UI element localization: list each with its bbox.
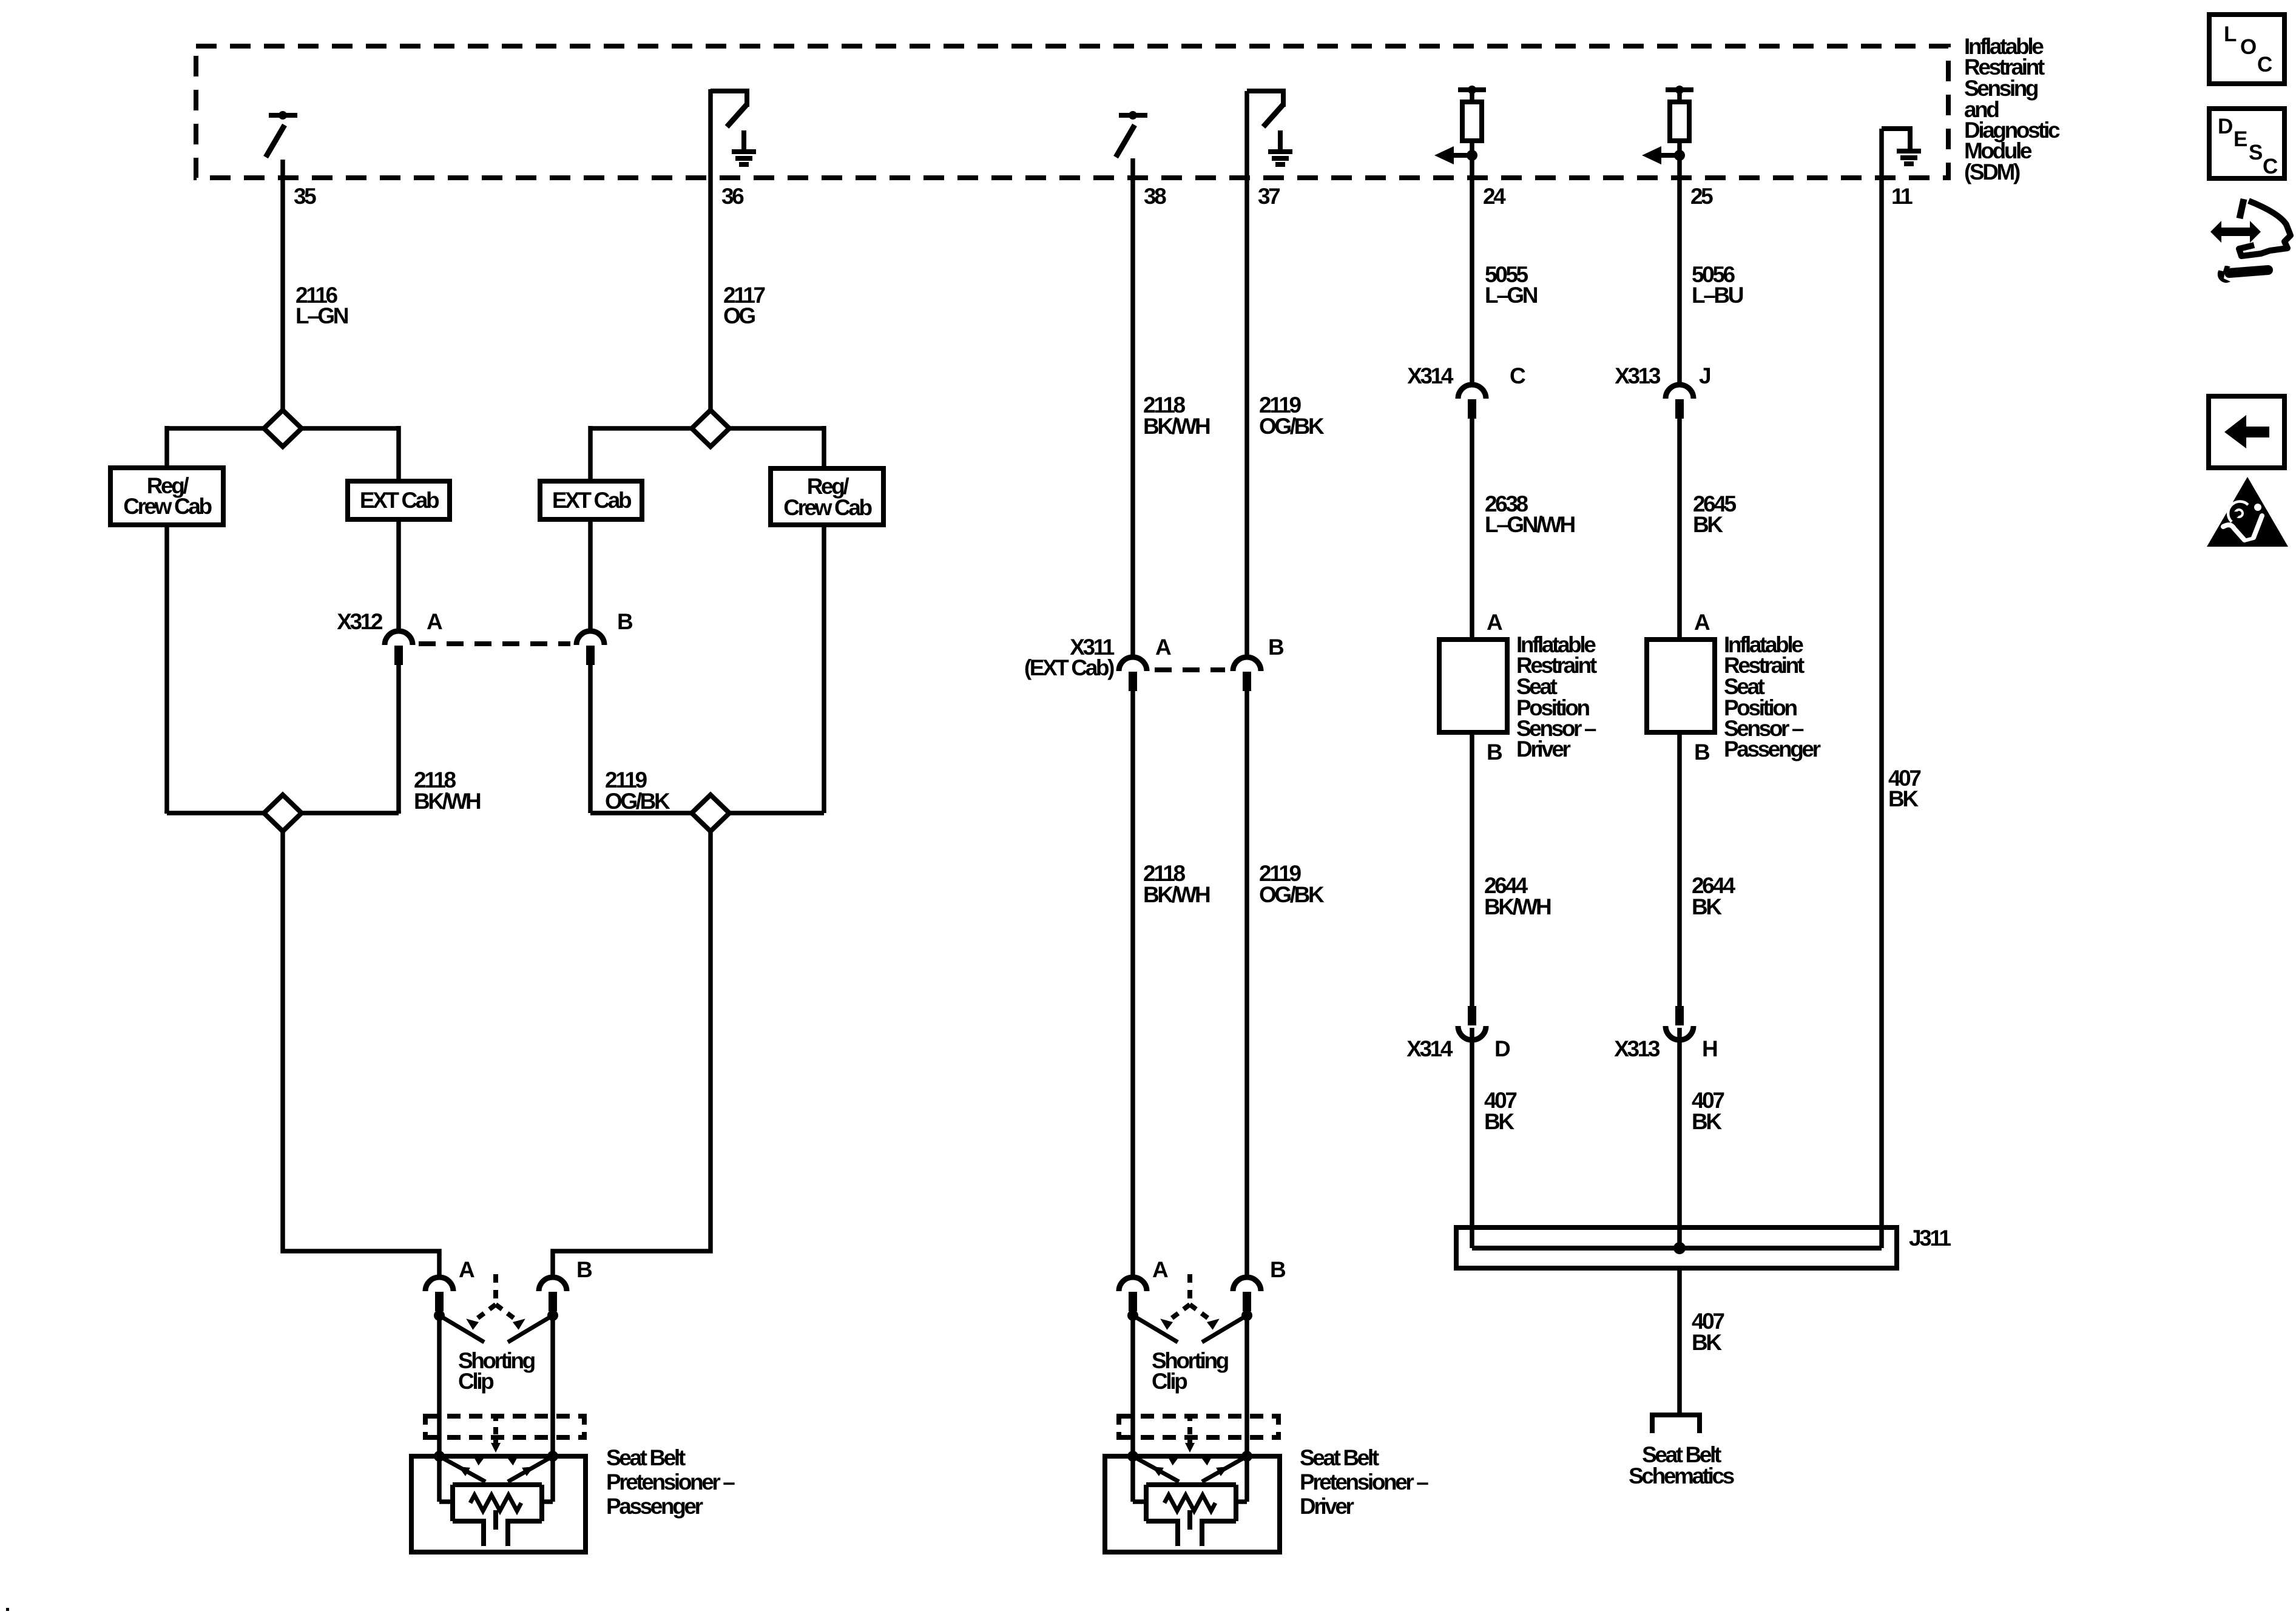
squib resistor zigzag in passenger box	[470, 1495, 521, 1511]
svg-text:BK: BK	[1692, 894, 1722, 919]
wire A down inside passenger box	[439, 1456, 454, 1502]
svg-text:O: O	[2240, 35, 2256, 59]
pin number 38	[1144, 184, 1166, 209]
junction dot B (passenger)	[547, 1310, 558, 1321]
connector terminal B of shorting clip (passenger)	[539, 1277, 567, 1311]
wire pin 35 to splice diamond	[280, 160, 285, 410]
ground switch inside SDM at pin 36	[711, 91, 756, 164]
wire B pin to pretensioner (passenger)	[550, 1311, 555, 1459]
wire EXT Cab left to X312 A	[396, 519, 401, 631]
svg-text:BK/WH: BK/WH	[1143, 882, 1210, 907]
blade from B in passenger box	[508, 1456, 553, 1482]
connector terminal A of shorting clip (passenger)	[425, 1277, 453, 1311]
wire label 2118 BK/WH upper	[1143, 393, 1210, 439]
wire pin 36 to splice diamond	[708, 89, 713, 410]
off-page connector bracket	[1652, 1415, 1700, 1433]
svg-text:Crew Cab: Crew Cab	[783, 495, 872, 520]
back arrow icon box	[2209, 396, 2284, 468]
wire A pin to pretensioner (driver)	[1130, 1311, 1135, 1459]
svg-text:OG: OG	[723, 303, 755, 328]
label pin A passenger sensor	[1694, 610, 1710, 635]
svg-text:X314: X314	[1406, 1036, 1453, 1061]
svg-text:38: 38	[1144, 184, 1166, 209]
svg-text:J: J	[1699, 363, 1710, 388]
svg-text:25: 25	[1690, 184, 1713, 209]
svg-text:Seat Belt: Seat Belt	[606, 1445, 686, 1470]
Reg/Crew Cab box right	[771, 468, 883, 525]
svg-text:35: 35	[294, 184, 316, 209]
wire EXT Cab right to X312 B	[588, 519, 593, 631]
LOC icon box	[2209, 15, 2284, 84]
connector X312 terminal B	[576, 631, 604, 665]
label X314 pin D	[1494, 1036, 1510, 1061]
splice diamond top right circuit	[692, 410, 729, 447]
wire B pin to pretensioner (driver)	[1244, 1311, 1249, 1459]
wire X313 H to J311	[1677, 1028, 1682, 1248]
blade from B in driver box	[1202, 1456, 1247, 1482]
svg-text:Passenger: Passenger	[1724, 737, 1821, 761]
svg-text:36: 36	[721, 184, 744, 209]
wire label 2117 OG	[723, 283, 765, 328]
label X314 lower	[1406, 1036, 1453, 1061]
wire passenger sensor to X313 H	[1677, 732, 1682, 1007]
Seat Belt Pretensioner Passenger text	[606, 1445, 735, 1519]
wire label 2644 BK/WH	[1484, 873, 1551, 919]
svg-text:24: 24	[1483, 184, 1506, 209]
switch inside SDM at pin 35	[266, 111, 297, 157]
connector X311 terminal B	[1233, 657, 1261, 691]
svg-text:EXT Cab: EXT Cab	[552, 488, 632, 513]
connector X311 terminal A	[1119, 657, 1147, 691]
label pin A driver clip	[1152, 1257, 1168, 1282]
svg-text:Driver: Driver	[1516, 737, 1571, 761]
label pin B driver clip	[1270, 1257, 1286, 1282]
svg-text:E: E	[2234, 127, 2247, 151]
label pin A driver sensor	[1487, 610, 1502, 635]
svg-text:D: D	[1494, 1036, 1510, 1061]
wire X314 C to driver sensor	[1470, 419, 1474, 640]
svg-text:L–GN: L–GN	[1485, 283, 1538, 308]
svg-text:EXT Cab: EXT Cab	[360, 488, 439, 513]
junction dot B (driver)	[1241, 1310, 1252, 1321]
junction dot B in passenger box	[547, 1451, 558, 1462]
wire X311 B down	[1244, 690, 1249, 1278]
arrowheads on driver box top	[1164, 1451, 1216, 1466]
wire pin 24 to X314	[1470, 155, 1474, 385]
svg-text:X313: X313	[1615, 363, 1661, 388]
svg-text:H: H	[1702, 1036, 1717, 1061]
Reg/Crew Cab box left	[110, 468, 223, 525]
dashed link arrow into passenger pretensioner	[491, 1440, 501, 1453]
wire pin 11 to J311	[1879, 129, 1884, 1248]
wire diamond to branches left circuit	[167, 426, 399, 431]
wire label 407 BK output	[1692, 1309, 1724, 1355]
wire bottom junction left	[167, 811, 399, 815]
connector dashed boundary at driver pretensioner	[1119, 1414, 1278, 1440]
wire label 2638 L-GN/WH	[1485, 491, 1575, 537]
svg-text:A: A	[1487, 610, 1502, 635]
pin number 24	[1483, 184, 1506, 209]
svg-text:X312: X312	[337, 609, 383, 634]
Inflatable Restraint Seat Position Sensor Driver text	[1516, 632, 1597, 761]
svg-text:Driver: Driver	[1300, 1494, 1354, 1519]
svg-text:OG/BK: OG/BK	[605, 789, 670, 814]
hand with arrow and wrench icon	[2210, 199, 2291, 283]
shorting clip mechanical link dashed (passenger)	[463, 1274, 528, 1330]
shorting clip blade from B (driver)	[1202, 1315, 1247, 1342]
wire X314 D to J311	[1470, 1028, 1474, 1248]
svg-text:J311: J311	[1909, 1226, 1951, 1251]
wire J311 to seat belt schematics	[1677, 1268, 1682, 1414]
squib rectangle in passenger box	[453, 1485, 542, 1521]
wire label 5056 L-BU	[1692, 262, 1743, 308]
svg-text:Passenger: Passenger	[606, 1494, 703, 1519]
wire label 407 BK driver column	[1484, 1088, 1516, 1134]
label X313 pin H	[1702, 1036, 1717, 1061]
shorting clip blade from A (driver)	[1133, 1315, 1178, 1342]
Seat Belt Pretensioner Driver text	[1300, 1445, 1428, 1519]
label J311	[1909, 1226, 1951, 1251]
junction dot A in driver box	[1127, 1451, 1138, 1462]
svg-text:Crew Cab: Crew Cab	[123, 494, 212, 519]
svg-text:11: 11	[1891, 184, 1913, 209]
svg-text:C: C	[2263, 155, 2278, 178]
connector terminal A of shorting clip (driver)	[1119, 1277, 1147, 1311]
shorting clip blade from B (passenger)	[508, 1315, 553, 1342]
wire bottom diamond right down	[553, 831, 711, 1278]
svg-text:OG/BK: OG/BK	[1259, 882, 1325, 907]
wire bottom junction right	[590, 811, 824, 815]
svg-text:Pretensioner –: Pretensioner –	[606, 1470, 735, 1494]
airbag warning triangle icon	[2207, 477, 2288, 547]
svg-text:37: 37	[1258, 184, 1280, 209]
label X314 pin C	[1510, 363, 1525, 388]
junction dot B in driver box	[1241, 1451, 1252, 1462]
label X313 upper	[1615, 363, 1661, 388]
label X313 pin J	[1699, 363, 1710, 388]
junction dot on J311 bus	[1673, 1242, 1686, 1254]
svg-text:Clip: Clip	[458, 1369, 494, 1394]
Inflatable Restraint Seat Position Sensor Passenger box	[1647, 640, 1715, 732]
svg-text:(SDM): (SDM)	[1964, 160, 2020, 184]
connector X313 terminal H	[1666, 1006, 1693, 1040]
blade from A in passenger box	[439, 1456, 485, 1482]
svg-text:BK/WH: BK/WH	[1484, 894, 1551, 919]
connector X313 terminal J	[1666, 385, 1693, 419]
svg-text:BK/WH: BK/WH	[1143, 414, 1210, 439]
junction dot A (driver)	[1127, 1310, 1138, 1321]
svg-text:BK: BK	[1888, 786, 1919, 811]
wire label 5055 L-GN	[1485, 262, 1538, 308]
pin number 35	[294, 184, 316, 209]
label X312 pin A	[427, 609, 442, 634]
wire B down inside driver box	[1235, 1456, 1247, 1502]
seat belt pretensioner driver box	[1105, 1456, 1280, 1552]
dashed link arrow into driver pretensioner	[1185, 1440, 1195, 1453]
squib resistor zigzag in driver box	[1164, 1495, 1215, 1511]
pin number 25	[1690, 184, 1713, 209]
svg-text:B: B	[1694, 740, 1710, 765]
wire label 2116 L-GN	[295, 283, 348, 328]
shorting clip mechanical link dashed (driver)	[1157, 1274, 1222, 1330]
EXT Cab box left	[348, 481, 450, 519]
svg-text:X314: X314	[1407, 363, 1454, 388]
squib rectangle in driver box	[1146, 1485, 1236, 1521]
label pin B passenger clip	[576, 1257, 592, 1282]
label X313 lower	[1614, 1036, 1660, 1061]
svg-text:B: B	[617, 609, 633, 634]
wire to Reg/Crew Cab left	[164, 426, 169, 468]
wire X313 J to passenger sensor	[1677, 419, 1682, 640]
svg-text:X313: X313	[1614, 1036, 1660, 1061]
svg-text:(EXT Cab): (EXT Cab)	[1024, 655, 1114, 680]
page corner mark	[6, 1608, 9, 1611]
resistor inside SDM at pin 24	[1434, 86, 1486, 164]
svg-text:L–GN: L–GN	[295, 303, 348, 328]
wire label 407 BK right column	[1888, 766, 1920, 811]
svg-text:A: A	[1155, 635, 1171, 660]
seat belt pretensioner passenger box	[411, 1456, 586, 1552]
connector terminal B of shorting clip (driver)	[1233, 1277, 1261, 1311]
Inflatable Restraint Seat Position Sensor Passenger text	[1724, 632, 1821, 761]
wire label 407 BK passenger column	[1692, 1088, 1724, 1134]
label pin B passenger sensor	[1694, 740, 1710, 765]
label X311 pin A	[1155, 635, 1171, 660]
junction dot A (passenger)	[434, 1310, 445, 1321]
wire to Reg/Crew Cab right	[822, 426, 826, 468]
shorting clip blade from A (passenger)	[439, 1315, 484, 1342]
wire X311 A down	[1130, 690, 1135, 1278]
wire label 2118 BK/WH lower	[1143, 861, 1210, 907]
svg-text:Seat Belt: Seat Belt	[1300, 1445, 1379, 1470]
splice diamond top left circuit	[264, 410, 302, 447]
svg-text:B: B	[1268, 635, 1284, 660]
wire bottom junction vertical stubs left	[167, 811, 399, 814]
dashed connector link X311	[1155, 667, 1225, 672]
Inflatable Restraint Seat Position Sensor Driver box	[1439, 640, 1507, 732]
label X314 upper	[1407, 363, 1454, 388]
wire pin 37 to X311	[1244, 91, 1249, 657]
svg-text:B: B	[1270, 1257, 1286, 1282]
wire X312 B down	[588, 664, 593, 813]
svg-text:Schematics: Schematics	[1629, 1463, 1734, 1488]
splice diamond bottom right circuit	[692, 795, 729, 831]
label X312	[337, 609, 383, 634]
EXT Cab box right	[540, 481, 642, 519]
connector dashed boundary at passenger pretensioner	[425, 1414, 584, 1440]
switch inside SDM at pin 38	[1116, 111, 1147, 157]
svg-text:A: A	[1694, 610, 1710, 635]
label X312 pin B	[617, 609, 633, 634]
wire to EXT Cab right	[588, 426, 593, 481]
splice diamond bottom left circuit	[264, 795, 302, 831]
initiator legs in passenger box	[484, 1519, 508, 1546]
svg-text:L–BU: L–BU	[1692, 283, 1743, 308]
wire Reg/Crew Cab right down	[822, 525, 826, 813]
resistor inside SDM at pin 25	[1642, 86, 1693, 164]
wire label 2119 OG/BK lower	[1259, 861, 1325, 907]
DESC icon box	[2209, 109, 2284, 178]
SDM module dashed outline box	[196, 46, 1948, 178]
wire bottom diamond left down	[283, 831, 439, 1278]
dashed connector link X312	[419, 641, 570, 646]
svg-text:B: B	[576, 1257, 592, 1282]
wire label 2118 BK/WH left	[414, 768, 481, 814]
svg-text:A: A	[427, 609, 442, 634]
svg-text:BK/WH: BK/WH	[414, 789, 481, 814]
svg-text:BK: BK	[1484, 1109, 1514, 1134]
initiator stub in driver box	[1187, 1510, 1192, 1530]
svg-text:OG/BK: OG/BK	[1259, 414, 1325, 439]
label X311	[1024, 635, 1115, 680]
svg-text:A: A	[459, 1257, 474, 1282]
svg-text:D: D	[2218, 115, 2232, 138]
SDM module name text	[1964, 34, 2060, 184]
label X311 pin B	[1268, 635, 1284, 660]
initiator legs in driver box	[1178, 1519, 1202, 1546]
blade from A in driver box	[1133, 1456, 1179, 1482]
svg-text:C: C	[2257, 53, 2272, 76]
svg-text:L: L	[2224, 22, 2237, 46]
pin number 36	[721, 184, 744, 209]
splice pack J311 box	[1456, 1227, 1897, 1268]
label pin B driver sensor	[1487, 740, 1502, 765]
wire B down inside passenger box	[541, 1456, 553, 1502]
ground switch inside SDM at pin 37	[1247, 91, 1292, 164]
wire pin 25 to X313	[1677, 155, 1682, 385]
wire to EXT Cab left	[396, 426, 401, 481]
label pin A passenger clip	[459, 1257, 474, 1282]
svg-text:A: A	[1152, 1257, 1168, 1282]
wire driver sensor to X314 D	[1470, 732, 1474, 1007]
Shorting Clip text passenger	[458, 1348, 535, 1394]
splice pack J311 bus bar	[1472, 1246, 1882, 1251]
wire A down inside driver box	[1133, 1456, 1147, 1502]
wire pin 38 to X311	[1130, 158, 1135, 657]
junction dot A in passenger box	[434, 1451, 445, 1462]
svg-text:L–GN/WH: L–GN/WH	[1485, 512, 1575, 537]
wire label 2645 BK	[1693, 491, 1737, 537]
initiator stub in passenger box	[493, 1510, 498, 1530]
wire label 2119 OG/BK upper	[1259, 393, 1325, 439]
svg-text:B: B	[1487, 740, 1502, 765]
wire diamond to branches right circuit	[590, 426, 824, 431]
wire label 2644 BK	[1692, 873, 1736, 919]
arrowheads on passenger box top	[470, 1451, 522, 1466]
svg-text:C: C	[1510, 363, 1525, 388]
svg-text:Pretensioner –: Pretensioner –	[1300, 1470, 1428, 1494]
connector X312 terminal A	[385, 631, 413, 665]
svg-text:S: S	[2249, 141, 2262, 164]
Shorting Clip text driver	[1152, 1348, 1229, 1394]
wire Reg/Crew Cab left down	[164, 525, 169, 813]
svg-text:BK: BK	[1693, 512, 1723, 537]
wire A pin to pretensioner (passenger)	[437, 1311, 442, 1459]
pin number 37	[1258, 184, 1280, 209]
wire label 2119 OG/BK left	[605, 768, 670, 814]
svg-text:BK: BK	[1692, 1109, 1722, 1134]
ground inside SDM at pin 11	[1882, 129, 1921, 164]
pin number 11	[1891, 184, 1913, 209]
svg-text:BK: BK	[1692, 1330, 1722, 1355]
connector X314 terminal D	[1458, 1006, 1486, 1040]
wire X312 A down	[396, 664, 401, 813]
connector X314 terminal C	[1458, 385, 1486, 419]
svg-text:Clip: Clip	[1152, 1369, 1187, 1394]
Seat Belt Schematics text	[1629, 1442, 1734, 1488]
